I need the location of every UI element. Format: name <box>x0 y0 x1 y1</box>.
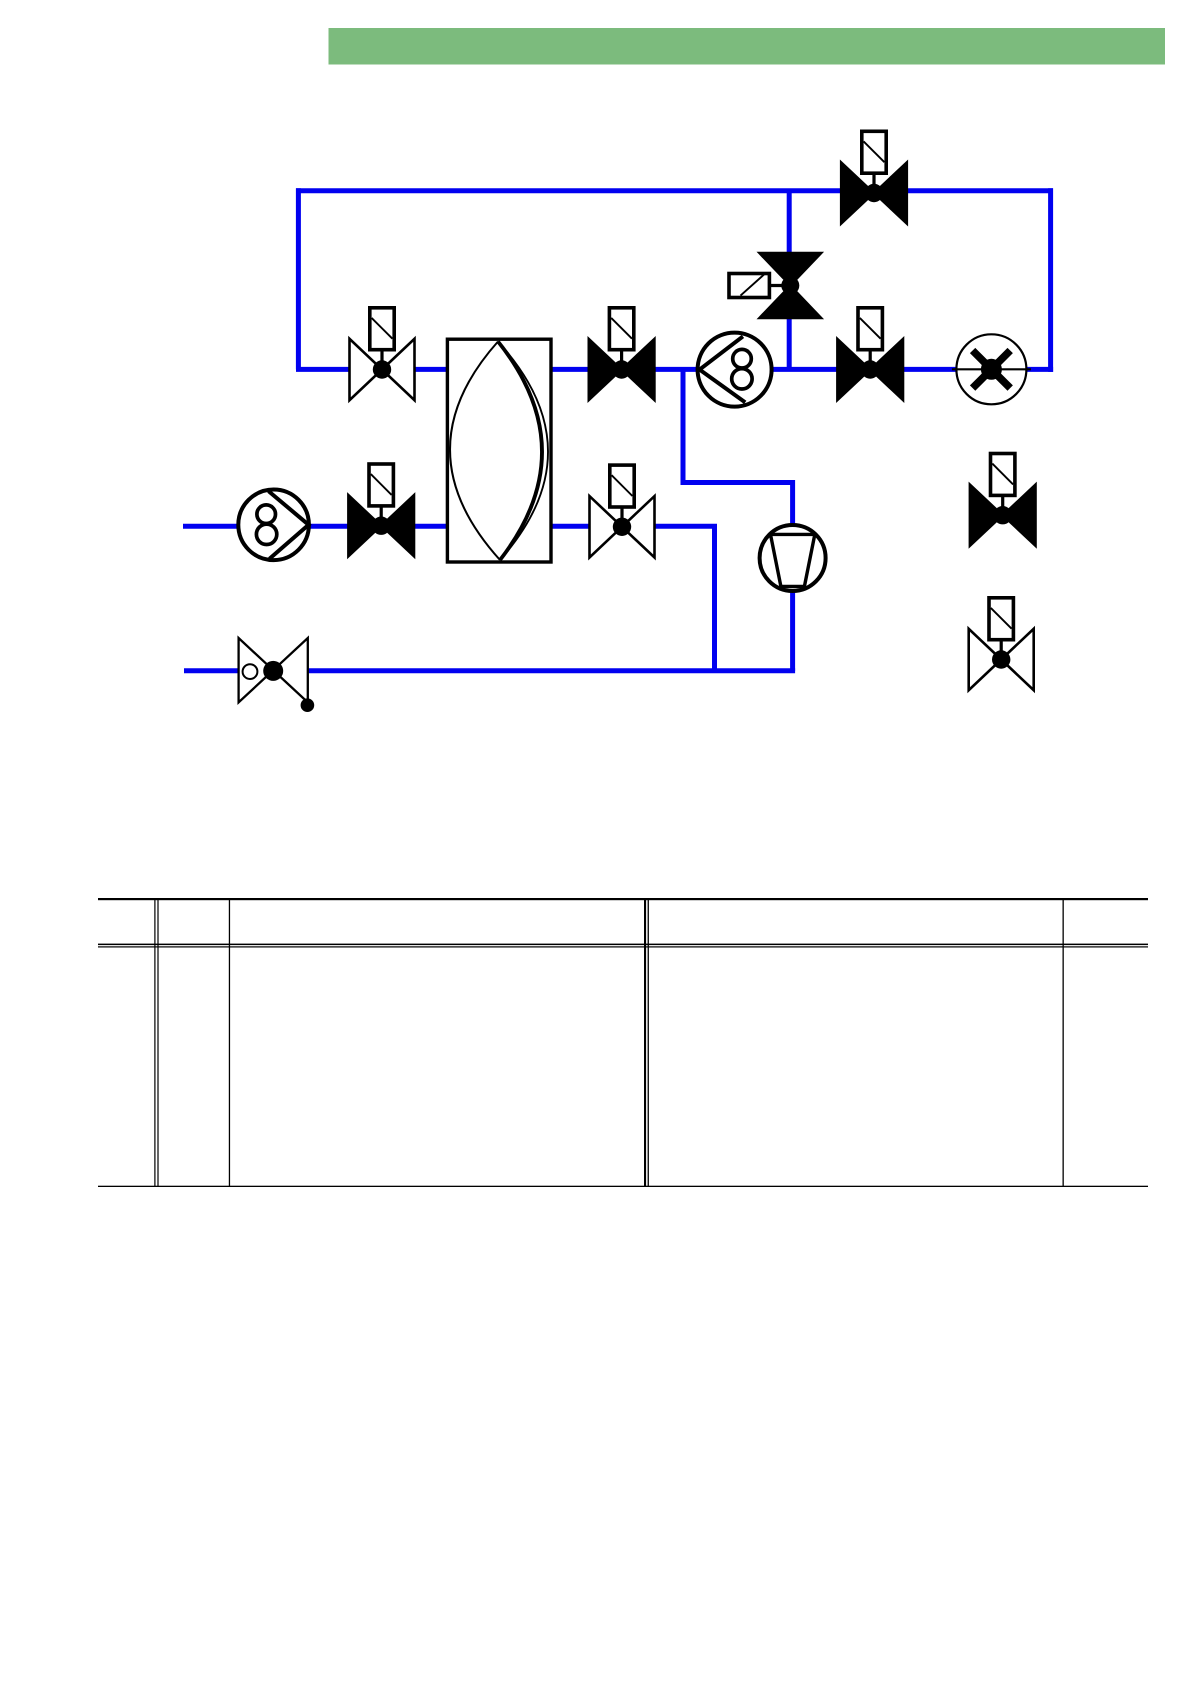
wire: top header line <box>296 188 1053 193</box>
wire: heat exchanger to valve V2 <box>551 367 589 372</box>
wire: valve V5 to heat exchanger <box>414 524 448 529</box>
wire: left riser to valve V1 <box>296 367 350 372</box>
wire: bottom return line left of drain valve <box>184 668 239 673</box>
valve V3 (motorised, closed symbol) <box>837 308 903 401</box>
wire: right riser to flow indicator <box>1027 367 1053 372</box>
wire: valve V6 to down corner <box>655 526 715 671</box>
pump P2 <box>238 490 309 561</box>
wire: branch drop from main line <box>683 369 793 671</box>
wire: left riser <box>296 188 301 369</box>
table vertical double line middle <box>644 898 646 1187</box>
pump P3 (trapezoid pump) <box>760 525 826 591</box>
valve V7 (motorised, closed symbol, spare) <box>970 454 1036 547</box>
wire: pump P1 to valve V3 <box>771 367 838 372</box>
wire: right riser <box>1048 188 1053 372</box>
valve V4 (motorised, closed symbol, top bypass) <box>841 131 907 224</box>
wire: valve V3 to flow indicator <box>904 367 956 372</box>
table top border <box>98 898 1148 900</box>
title bar <box>329 28 1166 65</box>
wire: drop to 3-way valve <box>787 191 792 370</box>
table header separator double line <box>98 944 1148 946</box>
3-way valve <box>729 253 822 318</box>
table bottom border <box>98 1186 1148 1187</box>
heat exchanger <box>447 339 551 562</box>
wire: valve V2 to pump P1 <box>655 367 699 372</box>
wire: lower supply line to pump P2 <box>183 524 239 529</box>
table vertical line left-2 <box>229 898 230 1187</box>
valve V6 (motorised, open symbol) <box>590 465 655 557</box>
wire: valve V1 to heat exchanger <box>414 367 447 372</box>
table vertical double line left <box>154 898 155 1187</box>
valve V8 (motorised, open symbol, spare) <box>969 598 1034 690</box>
flow indicator <box>952 334 1031 404</box>
drain valve <box>239 638 315 712</box>
valve V5 (motorised, closed symbol) <box>348 464 414 557</box>
wire: pump P2 to valve V5 <box>309 524 349 529</box>
wire: bottom return line <box>308 668 796 673</box>
wire: heat exchanger to valve V6 <box>551 524 590 529</box>
table vertical line right <box>1063 898 1064 1187</box>
valve V2 (motorised, closed symbol) <box>589 308 655 401</box>
valve V1 (motorised, open symbol) <box>350 308 415 400</box>
pump P1 <box>698 333 772 407</box>
